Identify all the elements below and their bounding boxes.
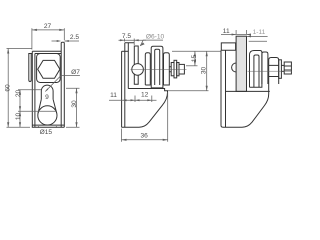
svg-text:2.5: 2.5	[70, 34, 79, 41]
conductor circle	[132, 64, 144, 76]
2.5 arrows (outside)	[57, 40, 62, 42]
bolt frame rounded rect	[37, 54, 61, 83]
svg-text:Ø6-10: Ø6-10	[146, 33, 165, 40]
dim 15 ext bottom	[186, 65, 198, 67]
dim 11 ext v3	[236, 30, 246, 34]
dim 7.5 line	[119, 39, 147, 41]
dim 27 extension lines	[32, 28, 64, 49]
bracket leg	[225, 50, 227, 127]
30 arrows	[206, 51, 208, 56]
nut face lines v3	[284, 66, 291, 70]
dim 30 ext lines	[66, 88, 80, 127]
clamp jaw block v3	[250, 51, 262, 88]
20 arrows	[19, 90, 21, 95]
body outline	[32, 51, 64, 127]
dim 11 12 line	[109, 99, 157, 101]
7.5 arrows outside	[120, 39, 125, 41]
dim 10 line	[19, 111, 21, 127]
base outline	[221, 50, 269, 127]
dim 2.5 leader	[52, 40, 80, 42]
base outline	[122, 90, 168, 127]
27 arrows	[32, 29, 37, 31]
bolt shaft	[169, 67, 171, 72]
36 arrows	[122, 139, 127, 141]
clamp left jaw	[145, 53, 150, 85]
svg-text:Ø7: Ø7	[71, 69, 80, 76]
svg-text:60: 60	[5, 84, 12, 92]
arrowheads view1	[7, 29, 78, 128]
nut v3	[284, 62, 291, 74]
svg-text:1-11: 1-11	[253, 29, 266, 36]
dim 60 line	[7, 49, 9, 128]
clamp right jaw	[164, 53, 170, 85]
svg-text:11: 11	[223, 28, 230, 35]
dim 20 line	[19, 90, 21, 111]
dim 30 ext bottom	[168, 90, 209, 92]
svg-text:27: 27	[44, 23, 52, 30]
svg-text:Ø15: Ø15	[40, 129, 53, 136]
svg-text:10: 10	[15, 113, 22, 121]
dim 11 12 ext	[135, 96, 152, 103]
bolt lines v3	[269, 65, 279, 76]
dia7 arrow	[45, 89, 48, 92]
clamp screw boss	[151, 46, 163, 88]
svg-text:9: 9	[45, 94, 49, 101]
washer v3	[279, 60, 282, 79]
texts view1	[5, 23, 81, 136]
1-11 arrow	[247, 35, 252, 37]
washer 2	[174, 60, 177, 78]
dim 36 line	[122, 139, 168, 141]
dia15 ext	[39, 126, 57, 128]
leg top edge	[122, 50, 129, 52]
pressure strap	[134, 46, 138, 84]
dim 60 ext lines	[7, 49, 33, 128]
left wall inner line	[34, 54, 36, 128]
bolt stub v3	[281, 65, 284, 71]
hex bolt head	[38, 60, 60, 78]
10 arrows	[19, 111, 21, 116]
dim 7.5 ext lines	[125, 39, 135, 46]
dim 36 ext	[122, 92, 168, 142]
base top surface	[226, 90, 270, 92]
svg-text:30: 30	[201, 67, 208, 75]
bolt centerline v3	[248, 70, 292, 72]
dim 30 right line	[76, 88, 78, 127]
dim 10 ext	[18, 110, 57, 112]
dia7 leader	[45, 75, 80, 91]
flat conductor plate gray	[236, 36, 246, 91]
keyhole flare	[38, 99, 57, 113]
left spring tab	[29, 54, 33, 82]
yoke strap v3	[269, 58, 279, 92]
svg-text:36: 36	[141, 133, 149, 140]
nut	[179, 64, 184, 74]
dim 20 ext top	[18, 89, 41, 91]
keyhole slot small hole	[41, 85, 53, 99]
right rail	[61, 42, 64, 127]
rear strap face	[221, 43, 236, 50]
svg-text:30: 30	[71, 100, 78, 108]
dim 11 line v3	[221, 34, 251, 36]
11 v3 arrows outside	[232, 34, 237, 36]
60 arrows	[7, 49, 9, 54]
dim 15 line	[194, 51, 196, 66]
base top surface	[128, 89, 167, 91]
round conductor semicircle	[232, 63, 237, 72]
dim 15 ext top	[172, 50, 221, 52]
bracket leg edge-on	[122, 43, 125, 128]
base bottom line	[32, 124, 64, 126]
dim 30 line	[206, 51, 208, 91]
30 arrows	[75, 88, 77, 93]
top cap	[32, 51, 61, 53]
svg-text:7.5: 7.5	[122, 33, 131, 40]
boss inner slot	[155, 49, 160, 85]
dia6-10 leader	[140, 40, 163, 46]
label 1-11 leader	[247, 35, 268, 37]
washer 1	[171, 63, 174, 76]
bolt centerline	[131, 68, 187, 70]
svg-text:20: 20	[15, 90, 22, 98]
jaw inner slot v3	[254, 55, 259, 87]
svg-text:11: 11	[110, 92, 117, 99]
svg-text:12: 12	[141, 91, 149, 98]
rear strap edge-on	[125, 43, 134, 89]
svg-text:15: 15	[191, 55, 198, 63]
15 arrows	[194, 51, 196, 56]
dia6-10 arrow	[140, 42, 144, 46]
dim 27 line	[32, 29, 64, 31]
reference line flat bar top	[249, 40, 267, 42]
middle piece v3	[262, 52, 268, 84]
11/12 arrows	[122, 99, 127, 101]
washer 3	[177, 63, 179, 76]
big hole circle	[38, 106, 57, 125]
